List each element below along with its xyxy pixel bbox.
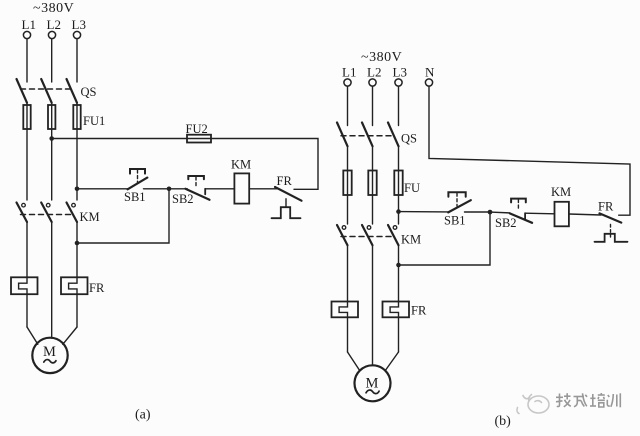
node dot on L3 rung tap (b) bbox=[396, 209, 401, 214]
terminal circle L2 (b) bbox=[369, 79, 376, 86]
svg-text:L1: L1 bbox=[342, 65, 356, 80]
label FR heaters (b) bbox=[411, 304, 427, 318]
thermal relay FR heater element L1 (a) bbox=[11, 277, 38, 294]
fuse FU1 pole 1 (a) bbox=[23, 105, 30, 129]
fuse FU1 pole 3 (a) bbox=[73, 105, 80, 129]
latch branch wire from junction down and left (a) bbox=[77, 189, 169, 243]
label ~380V (a) bbox=[33, 1, 74, 16]
watermark text 技成培训 bbox=[556, 393, 620, 407]
switch QS pole 2 blade (b) bbox=[362, 123, 373, 147]
wire slant L3 into motor (a) bbox=[63, 327, 77, 344]
svg-text:FR: FR bbox=[598, 200, 614, 214]
svg-text:SB2: SB2 bbox=[172, 192, 194, 206]
thermal relay FR NC contact blade (b) bbox=[600, 213, 622, 222]
label KM main contacts (a) bbox=[80, 210, 100, 224]
wire slant L3 into motor (b) bbox=[385, 352, 398, 370]
FR trip symbol bump (b) bbox=[595, 234, 628, 242]
thermal relay FR heater element L1 (b) bbox=[332, 302, 359, 318]
wire L3 KM to heater (a) with heater jog bbox=[69, 222, 77, 327]
contactor KM main contact pole 3 blade (b) bbox=[388, 225, 399, 245]
contactor KM main contact pole 1 circle (b) bbox=[342, 226, 346, 230]
thermal relay FR NC contact blade (a) bbox=[275, 187, 302, 201]
svg-text:FR: FR bbox=[277, 174, 293, 188]
char 培 bbox=[592, 394, 594, 407]
wire L2 top to QS (b) bbox=[372, 86, 374, 125]
motor tilde (a) bbox=[44, 360, 56, 363]
switch QS pole 1 blade (a) bbox=[17, 79, 28, 103]
pushbutton SB1 stem (b) bbox=[456, 193, 458, 206]
terminal label L3 (a) bbox=[72, 17, 86, 32]
contactor coil KM (b) bbox=[555, 202, 569, 227]
svg-text:KM: KM bbox=[401, 233, 421, 247]
wire SB1 to junction (b) bbox=[465, 211, 491, 213]
svg-text:L2: L2 bbox=[367, 65, 381, 80]
svg-text:L3: L3 bbox=[393, 65, 407, 80]
pushbutton SB2 fixed contact tick (a) bbox=[204, 189, 206, 195]
wire L3 top to QS (a) bbox=[76, 39, 78, 82]
wire slant L1 into motor (b) bbox=[348, 352, 360, 370]
motor M letter (a) bbox=[43, 344, 56, 360]
switch QS pole 3 blade (a) bbox=[67, 79, 78, 103]
wire L2 QS to KM (b) bbox=[372, 146, 374, 224]
terminal label L2 (a) bbox=[47, 17, 61, 32]
wire L1 KM to heater (a) with heater jog bbox=[19, 222, 27, 327]
wire L3 top to QS (b) bbox=[398, 86, 400, 125]
watermark logo scribble bbox=[517, 395, 549, 414]
wire SB2 to KM coil (b) bbox=[525, 212, 554, 215]
pushbutton SB1 cap (b) bbox=[448, 192, 465, 197]
contactor KM main contact pole 2 blade (b) bbox=[362, 225, 373, 245]
wire KM coil to FR contact (b) bbox=[569, 214, 601, 215]
node dot on L3 rung tap (a) bbox=[75, 187, 80, 192]
svg-text:L2: L2 bbox=[47, 17, 61, 32]
FR contact actuator dashed tick (b) bbox=[610, 225, 612, 238]
contactor KM main contact pole 3 circle (a) bbox=[72, 203, 76, 207]
label FR contact (a) bbox=[277, 174, 293, 188]
control rail wire from L2 through FU2 to right side (a) bbox=[52, 139, 318, 190]
contactor coil KM (a) bbox=[234, 173, 249, 203]
svg-text:FR: FR bbox=[89, 281, 105, 295]
label KM coil (b) bbox=[551, 185, 571, 199]
char 训 bbox=[608, 395, 610, 397]
svg-text:(a): (a) bbox=[135, 408, 151, 423]
FR trip symbol bump (a) bbox=[272, 207, 301, 218]
wire SB1 to junction (a) bbox=[144, 188, 170, 190]
label QS (b) bbox=[401, 132, 417, 146]
motor M letter (b) bbox=[366, 376, 379, 392]
label FR heaters (a) bbox=[89, 281, 105, 295]
terminal label L3 (b) bbox=[393, 65, 407, 80]
pushbutton SB2 stem (b) bbox=[517, 200, 519, 211]
pushbutton SB2 cap (b) bbox=[511, 199, 526, 203]
pushbutton SB2 blade NO (b) bbox=[510, 213, 532, 222]
switch QS pole 3 blade (b) bbox=[388, 123, 399, 147]
label SB1 (a) bbox=[124, 190, 146, 204]
svg-text:QS: QS bbox=[81, 85, 97, 99]
label ~380V (b) bbox=[361, 50, 402, 65]
pushbutton SB2 blade NO (a) bbox=[185, 189, 209, 200]
svg-text:KM: KM bbox=[231, 158, 251, 172]
fuse FU pole 3 (b) bbox=[394, 171, 402, 196]
terminal circle N (b) bbox=[425, 79, 432, 86]
pushbutton SB1 blade NC (b) bbox=[448, 200, 471, 212]
contactor KM main contact pole 1 blade (b) bbox=[337, 225, 348, 245]
pushbutton SB2 fixed contact tick (b) bbox=[524, 213, 526, 219]
latch branch wire from junction down and left (b) bbox=[399, 212, 491, 265]
neutral wire N down, across and right side down (b) bbox=[429, 86, 630, 215]
contactor KM main contact pole 2 blade (a) bbox=[41, 203, 52, 223]
FR contact actuator tick (a) bbox=[285, 199, 287, 207]
caption (a) bbox=[135, 408, 151, 423]
contactor KM main contact pole 1 circle (a) bbox=[22, 203, 26, 207]
fuse FU pole 1 (b) bbox=[343, 171, 351, 196]
contactor KM main contact pole 2 circle (a) bbox=[46, 203, 50, 207]
label FU (b) bbox=[404, 181, 420, 195]
QS gang dashed link (a) bbox=[21, 88, 72, 90]
wire L3 tap to SB1 (a) bbox=[77, 188, 128, 190]
svg-text:KM: KM bbox=[80, 210, 100, 224]
svg-text:SB2: SB2 bbox=[495, 216, 517, 230]
thermal relay FR heater element L3 (b) bbox=[383, 302, 410, 318]
label FR contact (b) bbox=[598, 200, 614, 214]
terminal circle L1 (b) bbox=[344, 79, 351, 86]
node dot on L2 control tap (a) bbox=[49, 136, 54, 141]
motor M circle (a) bbox=[32, 338, 67, 373]
svg-text:(b): (b) bbox=[495, 414, 512, 429]
KM gang dashed link (b) bbox=[341, 236, 393, 238]
terminal label L1 (b) bbox=[342, 65, 356, 80]
svg-text:N: N bbox=[425, 65, 435, 80]
label FU2 (a) bbox=[186, 122, 208, 136]
QS gang dashed link (b) bbox=[341, 135, 393, 137]
label KM coil (a) bbox=[231, 158, 251, 172]
label KM main contacts (b) bbox=[401, 233, 421, 247]
wire L3 QS to KM contact (a) bbox=[76, 103, 78, 200]
terminal circle L3 (b) bbox=[395, 79, 402, 86]
wire L2 top to QS (a) bbox=[51, 39, 53, 82]
fuse FU2 (a) bbox=[187, 135, 211, 143]
motor M circle (b) bbox=[355, 365, 391, 401]
svg-text:KM: KM bbox=[551, 185, 571, 199]
wire L2 KM to motor (a) bbox=[51, 222, 53, 338]
label SB2 (b) bbox=[495, 216, 517, 230]
svg-text:~380V: ~380V bbox=[33, 1, 74, 16]
wire SB2 to KM coil (a) bbox=[205, 188, 234, 190]
wire L1 top to QS (b) bbox=[347, 86, 349, 125]
svg-text:M: M bbox=[366, 376, 379, 392]
wire L2 KM to motor (b) bbox=[372, 245, 374, 365]
svg-text:L3: L3 bbox=[72, 17, 86, 32]
node dot SB1-SB2 junction (a) bbox=[167, 187, 172, 192]
svg-text:M: M bbox=[43, 344, 56, 360]
char 成 bbox=[574, 396, 585, 398]
label FU1 (a) bbox=[83, 114, 105, 128]
switch QS pole 2 blade (a) bbox=[41, 79, 52, 103]
wire L1 QS to KM contact (a) bbox=[26, 103, 28, 200]
terminal circle L3 (a) bbox=[73, 31, 80, 38]
wire L1 top to QS (a) bbox=[26, 39, 28, 82]
svg-text:L1: L1 bbox=[22, 17, 36, 32]
label SB2 (a) bbox=[172, 192, 194, 206]
node dot latch return on L3 (a) bbox=[75, 241, 80, 246]
svg-text:~380V: ~380V bbox=[361, 50, 402, 65]
motor tilde (b) bbox=[366, 390, 379, 394]
label SB1 (b) bbox=[444, 214, 466, 228]
wire L3 KM to heater (b) with heater jog bbox=[390, 245, 398, 352]
contactor KM main contact pole 3 blade (a) bbox=[67, 203, 78, 223]
contactor KM main contact pole 1 blade (a) bbox=[17, 203, 28, 223]
wire L3 QS to KM (b) bbox=[398, 146, 400, 224]
thermal relay FR heater element L3 (a) bbox=[61, 277, 88, 294]
wire KM coil to FR contact (a) bbox=[249, 188, 278, 190]
pushbutton SB1 stem (a) bbox=[137, 170, 139, 183]
caption (b) bbox=[495, 414, 512, 429]
terminal circle L1 (a) bbox=[23, 31, 30, 38]
terminal circle L2 (a) bbox=[48, 31, 55, 38]
wire L3 tap to SB1 (b) bbox=[399, 211, 449, 213]
svg-text:SB1: SB1 bbox=[124, 190, 146, 204]
terminal label L1 (a) bbox=[22, 17, 36, 32]
node dot SB1-SB2 junction (b) bbox=[488, 210, 493, 215]
wire junction to SB2 (a) bbox=[169, 188, 187, 190]
fuse FU pole 2 (b) bbox=[368, 171, 376, 196]
wire L1 QS to KM (b) bbox=[347, 146, 349, 224]
wire L2 QS to KM contact (a) bbox=[51, 103, 53, 200]
label QS (a) bbox=[81, 85, 97, 99]
pushbutton SB1 cap (a) bbox=[130, 169, 145, 174]
svg-text:FR: FR bbox=[411, 304, 427, 318]
svg-text:FU: FU bbox=[404, 181, 420, 195]
contactor KM main contact pole 3 circle (b) bbox=[393, 226, 397, 230]
terminal label L2 (b) bbox=[367, 65, 381, 80]
wire junction to SB2 (b) bbox=[490, 211, 510, 214]
pushbutton SB1 blade NC (a) bbox=[128, 178, 148, 190]
svg-text:FU2: FU2 bbox=[186, 122, 208, 136]
switch QS pole 1 blade (b) bbox=[337, 123, 348, 147]
svg-text:FU1: FU1 bbox=[83, 114, 105, 128]
pushbutton SB2 stem (a) bbox=[195, 177, 197, 188]
terminal label N (b) bbox=[425, 65, 435, 80]
char 技 bbox=[557, 394, 560, 407]
node dot latch return on L3 (b) bbox=[396, 263, 401, 268]
contactor KM main contact pole 2 circle (b) bbox=[367, 226, 371, 230]
svg-text:QS: QS bbox=[401, 132, 417, 146]
pushbutton SB2 cap (a) bbox=[188, 176, 204, 179]
KM gang dashed link (a) bbox=[21, 214, 72, 216]
svg-text:SB1: SB1 bbox=[444, 214, 466, 228]
wire L1 KM to heater (b) with heater jog bbox=[339, 245, 347, 352]
fuse FU1 pole 2 (a) bbox=[48, 105, 55, 129]
wire slant L1 into motor (a) bbox=[27, 327, 38, 344]
